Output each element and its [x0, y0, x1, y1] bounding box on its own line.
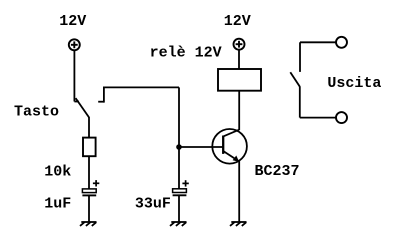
wire: NO contact riser — [103, 87, 105, 102]
wire: C2 to ground — [178, 195, 180, 222]
output terminal (bottom) — [336, 112, 347, 123]
wire: C1 to ground — [88, 195, 90, 222]
svg-text:1uF: 1uF — [44, 195, 71, 212]
svg-text:10k: 10k — [44, 164, 71, 181]
wire: resistor R1 to capacitor C1 — [88, 156, 90, 189]
svg-text:Uscita: Uscita — [327, 75, 381, 92]
svg-text:relè 12V: relè 12V — [150, 44, 222, 61]
relay coil K1 — [218, 69, 261, 91]
wire: node A drop from rail — [178, 87, 180, 147]
switch S1 blade — [76, 98, 89, 117]
transistor Q1 BC237 (NPN) — [212, 129, 247, 164]
svg-text:12V: 12V — [59, 13, 86, 30]
junction node A — [176, 144, 182, 150]
wire: emitter to ground — [238, 161, 240, 222]
resistor R1 10k — [83, 138, 96, 157]
switch S1 "Tasto" pole contact tick — [74, 101, 79, 103]
power terminal +12V (left) — [69, 39, 80, 50]
svg-text:Tasto: Tasto — [14, 104, 59, 121]
switch S1 NO contact tick — [98, 101, 104, 103]
wire: switch blade to resistor R1 — [88, 117, 90, 138]
wire: top rail from switch to node A — [103, 86, 179, 88]
wire: +12V terminal to relay coil — [238, 50, 240, 69]
capacitor C2 33uF electrolytic — [173, 180, 189, 195]
ground under C1 — [80, 222, 97, 226]
output terminal (top) — [336, 37, 347, 48]
wire: node A to transistor base — [179, 146, 223, 148]
wire: bottom output contact — [300, 86, 336, 117]
ground under emitter — [230, 222, 247, 226]
wire: top output contact — [300, 42, 336, 72]
relay output contact blade (NO) — [290, 72, 300, 86]
svg-text:33uF: 33uF — [135, 196, 171, 213]
svg-text:BC237: BC237 — [255, 163, 300, 180]
power terminal +12V (relay supply) — [234, 39, 245, 50]
wire: +12V terminal down to switch pole — [73, 50, 75, 101]
capacitor C1 1uF electrolytic — [82, 180, 99, 195]
wire: relay coil to collector — [238, 91, 240, 130]
svg-text:12V: 12V — [224, 13, 251, 30]
wire: node A down to capacitor C2 — [178, 147, 180, 189]
ground under C2 — [170, 222, 187, 226]
